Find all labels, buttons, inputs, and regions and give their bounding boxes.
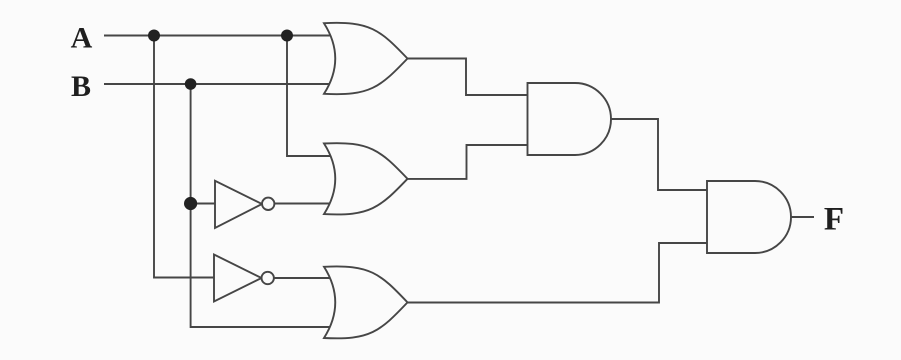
wire OR2 output to AND1 lower input [406,145,528,179]
and-gate AND2 [707,181,791,253]
wire inverter U2 output to OR3 upper input [268,277,334,279]
wire OR1 output to AND1 upper input [406,59,528,96]
inverter U2 bubble [262,272,274,284]
wire input B horizontal [104,83,333,85]
wire B branch vertical through node to OR3 lower input [191,84,334,327]
wire AND2 output to F [791,216,814,218]
wire input A horizontal [104,35,334,37]
wire AND1 output to AND2 upper input [611,119,708,190]
inverter U1 triangle [215,181,262,228]
or-gate OR2 [324,143,408,214]
wire inverter U1 output to OR2 lower input [268,203,334,205]
wire OR3 output to AND2 lower input [406,243,708,303]
junction dot node A2 [281,30,293,42]
svg-text:F: F [824,202,844,238]
wire inverter U1 input stub from node B2 [191,203,216,205]
junction dot node B2 inverter input [184,197,197,210]
inverter U2 triangle [214,255,262,302]
svg-text:B: B [71,70,91,103]
wire A branch vertical to inverter U2 [154,36,216,278]
svg-text:A: A [71,22,93,55]
wire A second branch vertical to OR2 upper input [287,36,334,157]
inverter U1 bubble [262,198,274,210]
or-gate OR3 [324,266,408,338]
junction dot node A1 [148,30,160,42]
or-gate OR1 [324,23,408,94]
junction dot node B1 [185,78,197,90]
and-gate AND1 [528,83,612,155]
